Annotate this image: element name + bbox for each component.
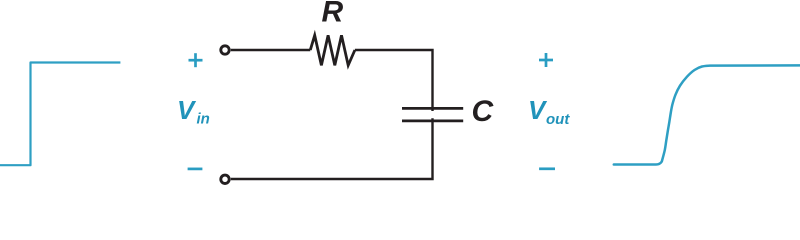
- resistor R1: [310, 35, 355, 65]
- svg-text:V: V: [177, 95, 197, 125]
- capacitor C1: [402, 108, 463, 121]
- wire terminal to resistor: [231, 49, 310, 51]
- svg-text:in: in: [197, 111, 210, 128]
- label Vout: [528, 95, 570, 128]
- svg-text:R: R: [322, 0, 344, 29]
- plus sign (Vin +): [189, 53, 203, 67]
- wire resistor to top-right corner: [355, 50, 433, 111]
- svg-text:C: C: [472, 95, 495, 128]
- svg-text:out: out: [546, 111, 570, 128]
- plus sign (Vout +): [539, 53, 553, 67]
- minus sign (Vin -): [188, 168, 203, 171]
- minus sign (Vout -): [539, 167, 555, 170]
- output exponential waveform: [614, 65, 800, 164]
- wire capacitor to bottom rail: [231, 118, 433, 179]
- label Vin: [177, 95, 210, 128]
- terminal top-left: [221, 46, 229, 54]
- svg-text:V: V: [528, 95, 548, 125]
- terminal bottom-left: [221, 175, 229, 183]
- input step waveform: [0, 63, 120, 166]
